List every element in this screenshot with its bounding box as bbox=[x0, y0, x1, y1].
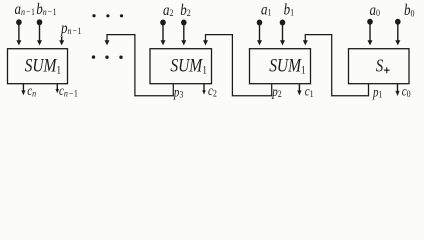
wire a1 arrow bbox=[259, 25, 261, 42]
wire p1 from S+ bottom to SUM1(1) top bbox=[305, 35, 368, 96]
adder block S+ (bit 0) bbox=[349, 49, 410, 84]
adder block SUM1 (bits 1) bbox=[250, 49, 311, 84]
subscript plus of S+ bbox=[384, 67, 390, 73]
node a1 input dot bbox=[257, 20, 263, 26]
wire p(n-1) arrow into SUM1 bbox=[61, 37, 63, 42]
node b0 input dot bbox=[395, 19, 401, 25]
wire c(n-1) output arrow bbox=[56, 84, 58, 90]
ellipsis dots middle bbox=[92, 55, 123, 59]
adder block SUM1 (bits n-1) bbox=[8, 49, 68, 84]
svg-text:SUM1: SUM1 bbox=[269, 55, 306, 77]
wire c1 output arrow bbox=[298, 84, 300, 91]
arrowhead p1 into SUM1(1) bbox=[303, 40, 308, 45]
svg-text:SUM1: SUM1 bbox=[25, 55, 62, 77]
node b1 input dot bbox=[280, 20, 286, 26]
arrowhead p into elided stage bbox=[105, 40, 110, 45]
wire a(n-1) arrow into SUM1 bbox=[18, 25, 20, 42]
svg-text:SUM1: SUM1 bbox=[170, 55, 207, 77]
node a2 input dot bbox=[160, 20, 166, 26]
svg-text:S: S bbox=[376, 55, 384, 76]
node b2 input dot bbox=[181, 20, 187, 26]
wire b(n-1) arrow into SUM1 bbox=[39, 25, 41, 42]
node a(n-1) input dot bbox=[16, 19, 22, 25]
wire a2 arrow bbox=[162, 25, 164, 42]
adder block SUM1 (bits 2) bbox=[150, 49, 212, 84]
wire b2 arrow bbox=[183, 25, 185, 42]
node b(n-1) input dot bbox=[37, 19, 43, 25]
wire cn output arrow bbox=[22, 84, 24, 91]
wire p3 from SUM1(2) bottom to elided stage bbox=[107, 35, 173, 96]
ellipsis dots top bbox=[92, 14, 123, 17]
wire b0 arrow bbox=[397, 24, 399, 42]
node a0 input dot bbox=[367, 19, 373, 25]
wire p2 from SUM1(1) bottom to SUM1(2) top bbox=[206, 35, 272, 96]
wire c2 output arrow bbox=[203, 84, 205, 91]
wire c0 output arrow bbox=[397, 84, 399, 92]
arrowhead p2 into SUM1(2) bbox=[203, 40, 208, 45]
wire a0 arrow bbox=[369, 24, 371, 42]
wire b1 arrow bbox=[282, 25, 284, 42]
